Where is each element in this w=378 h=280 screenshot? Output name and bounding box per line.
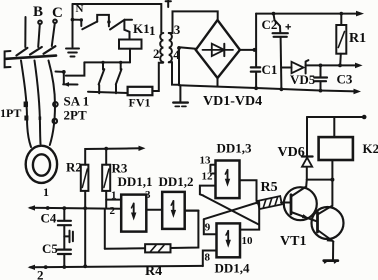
wire pin4 riser to bridge left vertex (179, 47, 196, 85)
node rail2 left (44, 265, 48, 269)
contact SA1-a upper stub (102, 62, 104, 69)
transistor VT1b circle (312, 207, 344, 239)
transistor VT1b emitter (318, 230, 334, 242)
wire K2 supply rail (307, 116, 364, 118)
svg-text:1: 1 (111, 190, 117, 202)
wire bridge right vertex to C1 (240, 49, 256, 51)
phase C terminal circle (53, 20, 57, 24)
gate DD1.4 box (217, 223, 241, 257)
wire gate3 output (240, 180, 257, 201)
ground under N (66, 49, 79, 57)
capacitor C4 plates (58, 221, 71, 225)
node rail a (101, 61, 104, 64)
wire neutral N vertical (72, 4, 74, 47)
transistor VT1b base bar (316, 213, 319, 233)
node contact left (80, 18, 83, 21)
node bridge output (253, 48, 257, 52)
fuse 1PT marker b (24, 116, 28, 121)
zener VD5 bar (306, 60, 309, 73)
VT1b emitter arrow (327, 237, 335, 242)
node R1 tap (338, 64, 342, 68)
SA1 connector arrow (63, 83, 77, 85)
contact SA1-b lower lead (115, 85, 117, 93)
gate DD1.2 box (162, 192, 185, 229)
relay coil K1 (119, 40, 142, 49)
wire DC middle rail (306, 64, 357, 66)
gate DD1.4 symbol (227, 231, 229, 244)
side capacitor lead (64, 235, 69, 237)
wire gate2 output stub (185, 210, 199, 212)
transistor VT1a circle (284, 187, 317, 220)
wire top bus from N to transformer pin 1 (73, 4, 162, 33)
node C3 tap (319, 64, 323, 68)
svg-text:3: 3 (145, 189, 151, 201)
transformer T secondary winding (169, 33, 172, 62)
svg-text:K1: K1 (133, 21, 150, 36)
contact SA1-b upper stub (120, 62, 122, 69)
wire R4 loop left vertical (104, 209, 106, 249)
motor inner circle (33, 154, 50, 175)
resistor R4 hatches (151, 245, 165, 251)
svg-text:2: 2 (37, 268, 44, 280)
resistor R1 body (336, 25, 346, 54)
pin 14 stub with hook (200, 186, 216, 196)
gate DD1.2 symbol (172, 201, 174, 214)
node contact mid (107, 20, 110, 23)
capacitor C2 lower lead (280, 37, 283, 89)
C2 polarity plus (286, 25, 290, 29)
wire K2 bottom lead (331, 160, 333, 180)
wire phase C upper (52, 23, 55, 46)
wire FV1 to transformer pin 2 (152, 63, 163, 91)
contact SA1-a lower lead (98, 85, 100, 93)
node collector junction (330, 178, 334, 182)
wire gate4 output stub (240, 204, 259, 230)
wire phase B lower to motor (35, 61, 41, 145)
zener VD5 lead (281, 67, 291, 69)
wire DC top rail (256, 13, 357, 15)
svg-text:DD1,3: DD1,3 (217, 141, 253, 156)
svg-text:VD6: VD6 (278, 145, 305, 160)
gate DD1.1 symbol (133, 204, 135, 217)
capacitor C1 lower lead (255, 72, 257, 89)
capacitor C4 upper lead (63, 208, 65, 220)
zener VD5 triangle (292, 62, 304, 73)
wire R3 to gate pin 1 (106, 199, 121, 201)
capacitor C5 plates (58, 250, 71, 254)
svg-text:R5: R5 (261, 180, 278, 195)
contact K1.1 blade a (82, 22, 97, 30)
VT1a emitter arrow (302, 214, 310, 219)
node R1 top (340, 12, 344, 16)
svg-text:13: 13 (200, 155, 212, 167)
resistor R4 body (145, 244, 170, 252)
node R5 input (256, 200, 260, 204)
switch SA1 blade pole B (30, 47, 42, 55)
transistor VT1a collector (291, 180, 307, 197)
wire R3 bottom lead (105, 191, 107, 209)
wire collector junction (307, 179, 333, 181)
capacitor C1 upper lead (255, 14, 257, 68)
node bottom rail C2 (280, 87, 284, 91)
svg-text:2: 2 (110, 205, 116, 217)
transformer top tick T (166, 1, 171, 8)
svg-text:DD1,1: DD1,1 (118, 174, 153, 189)
svg-text:DD1,2: DD1,2 (159, 174, 194, 189)
node rail1 C4 (62, 206, 66, 210)
wire rail 1 (30, 208, 121, 209)
node rail1 motor a (46, 206, 50, 210)
wire R5 to VT1a base (281, 202, 291, 204)
capacitor C2 upper lead (274, 14, 281, 33)
svg-text:SA 1: SA 1 (64, 94, 90, 109)
wire R2 bottom long vertical (84, 191, 86, 266)
wire DC bottom rail (179, 85, 356, 91)
svg-text:VD1-VD4: VD1-VD4 (203, 94, 262, 109)
svg-text:C4: C4 (41, 211, 57, 226)
node rail b (119, 61, 122, 64)
contact SA1-b blade (116, 69, 122, 84)
wire secondary pin 4 down (169, 62, 179, 85)
node top rail C2 tap (272, 12, 276, 16)
svg-text:VT1: VT1 (280, 234, 306, 249)
motor M outer circle (26, 146, 57, 183)
wire R4 right lead (171, 211, 199, 248)
resistor R5 body (258, 196, 282, 209)
arrow DC top rail (356, 11, 364, 17)
wire phase B upper (38, 24, 40, 47)
side capacitor plates (70, 231, 73, 243)
wire gate1 out to gate2 in (146, 209, 162, 211)
capacitor C4 lower lead (63, 225, 65, 249)
wire phase A lower to motor (21, 61, 31, 148)
wire secondary pin 3 to bridge top (169, 11, 218, 33)
wire rail under coil (84, 61, 130, 63)
svg-text:FV1: FV1 (129, 96, 151, 110)
wire contact to coil K1 (124, 20, 129, 40)
pin 13 stub (210, 165, 215, 172)
arrow DC bottom rail (354, 89, 362, 95)
switch SA1 blade pole C (44, 46, 56, 54)
svg-text:DD1,4: DD1,4 (215, 261, 251, 276)
node R3 tap (104, 147, 108, 151)
bridge inner diode bar (223, 44, 225, 56)
transformer T primary winding (160, 33, 163, 62)
node rail2 C5 (62, 265, 66, 269)
diode VD6 triangle (302, 158, 312, 167)
wire feed to R2 R3 (85, 148, 140, 164)
node bottom rail C3 (319, 89, 323, 93)
capacitor C2 plates (273, 33, 288, 37)
arrow DC middle rail (355, 63, 363, 69)
capacitor C1 plates (251, 67, 260, 71)
svg-text:1: 1 (43, 185, 49, 199)
svg-text:12: 12 (202, 171, 214, 183)
fuse 1PT marker a (24, 102, 28, 108)
svg-text:C1: C1 (262, 62, 278, 77)
transistor VT1a emitter (291, 212, 309, 218)
svg-text:C: C (52, 5, 63, 21)
pin 12 stub (212, 173, 216, 175)
wire rail 2 (30, 266, 203, 267)
svg-text:2: 2 (153, 46, 160, 61)
svg-text:R4: R4 (145, 264, 162, 279)
wire pin 9 corner (204, 219, 217, 234)
svg-text:9: 9 (205, 222, 211, 234)
svg-text:K2: K2 (363, 141, 378, 156)
wire diagonal pin9 to R5 node (204, 203, 257, 220)
svg-text:R2: R2 (66, 160, 82, 175)
resistor R2 slash (82, 169, 87, 188)
wire VT1b emitter down (332, 242, 334, 260)
phase B small marker (39, 117, 42, 120)
bridge inner diode triangle (212, 44, 225, 56)
fuse 2PT circle a (53, 102, 58, 107)
arrow feed wire (139, 146, 146, 151)
resistor R3 slash (104, 169, 109, 188)
contact K1.1 blade b (110, 20, 124, 30)
contact SA1-a blade (99, 69, 105, 84)
capacitor C3 lower lead (320, 81, 322, 90)
wire SA1 drop (56, 72, 64, 84)
diode VD6 bar (302, 155, 313, 157)
transistor VT1a base bar (290, 195, 293, 214)
svg-text:VD5: VD5 (290, 72, 316, 87)
node rail1 R2 (83, 206, 87, 210)
wire N to contact K1.1 (73, 20, 82, 26)
wire VD6 upper lead (306, 117, 308, 156)
resistor R2 body (81, 165, 89, 191)
fuse 2PT circle b (53, 119, 58, 124)
capacitor C5 lower lead (63, 254, 65, 267)
wire phase C lower to motor (49, 61, 56, 146)
svg-text:R1: R1 (349, 31, 366, 46)
switch SA1 linkage bar (6, 56, 56, 59)
node bottom rail C1 (254, 86, 258, 90)
resistor R3 top lead (105, 149, 107, 165)
resistor R1 bottom lead (339, 54, 342, 66)
svg-text:8: 8 (205, 252, 211, 264)
svg-text:C2: C2 (262, 17, 278, 32)
switch SA1 blade pole A (16, 48, 27, 56)
capacitor C3 upper lead (320, 65, 322, 77)
resistor R1 top lead (340, 14, 342, 25)
wire K2 top lead (333, 117, 335, 137)
wire VT1a emitter to VT1b base (309, 218, 318, 221)
svg-text:C3: C3 (337, 72, 353, 87)
node N junction (71, 18, 75, 22)
bridge inner diode line (203, 49, 234, 51)
node K2 rail end (362, 115, 367, 120)
gate DD1.1 box (121, 195, 146, 232)
svg-text:C5: C5 (42, 241, 58, 256)
svg-text:3: 3 (174, 22, 181, 37)
gate DD1.3 box (216, 161, 240, 199)
fuse FV1 (128, 87, 153, 95)
svg-text:10: 10 (242, 235, 254, 247)
arrow rail 2 left (28, 265, 35, 270)
chassis ground on DC common (179, 85, 181, 102)
switch SA1 handle bracket (5, 51, 11, 67)
svg-text:2PT: 2PT (64, 108, 87, 123)
wire VD6 lower lead (306, 167, 308, 180)
phase B terminal circle (38, 21, 42, 25)
svg-text:1: 1 (149, 23, 156, 38)
ground bottom (324, 259, 338, 262)
node pin4 riser (177, 46, 181, 50)
wire R4 left lead (105, 247, 145, 249)
wire junction to T2 collector (331, 180, 333, 206)
wire bridge bottom vertex stub (217, 78, 219, 86)
wire SA1 riser (66, 62, 85, 75)
bridge rectifier VD1-VD4 diamond (196, 20, 240, 78)
arrow rail 1 left (28, 205, 35, 210)
resistor R3 body (102, 165, 110, 191)
svg-text:1PT: 1PT (0, 106, 21, 120)
phase A terminal (24, 17, 26, 47)
resistor R1 slash (338, 32, 344, 48)
relay coil K2 (319, 137, 353, 160)
capacitor C3 plates (314, 78, 327, 82)
wire diagonal hook to gate4 output (203, 196, 259, 225)
wire staple between contacts (97, 15, 109, 27)
pin 8 stub (203, 251, 217, 267)
transistor VT1b collector (318, 206, 333, 215)
node rail2 R2 (83, 264, 87, 268)
gate DD1.3 symbol (227, 170, 229, 183)
wire contact out stub (124, 19, 132, 21)
wire bottom of control loop (88, 92, 128, 93)
svg-text:B: B (33, 4, 43, 20)
wire coil K1 bottom (129, 49, 131, 63)
